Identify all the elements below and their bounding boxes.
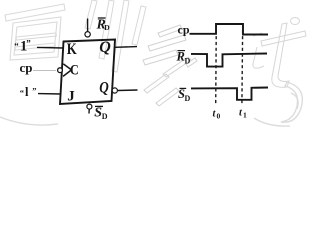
svg-text:Q: Q <box>99 80 109 97</box>
RD label <box>96 18 111 33</box>
svg-text:”: ” <box>32 86 36 96</box>
watermark swooshes <box>0 82 302 126</box>
timing: label SD <box>178 87 191 103</box>
svg-text:cp: cp <box>178 23 190 37</box>
svg-text:J: J <box>67 88 75 104</box>
wire cp (faint) <box>33 69 56 71</box>
svg-text:R: R <box>176 50 185 64</box>
svg-text:1: 1 <box>243 110 247 119</box>
svg-text:D: D <box>185 57 191 66</box>
watermark char kao <box>143 25 197 106</box>
JK flip-flop U1 body <box>60 40 115 105</box>
label t1 <box>239 107 247 119</box>
timing: cp waveform <box>190 24 269 35</box>
svg-text:D: D <box>102 112 108 121</box>
watermark char shi <box>253 18 306 88</box>
wire from "1" to K input <box>37 46 64 49</box>
svg-text:D: D <box>104 23 110 32</box>
SD label <box>94 106 107 121</box>
RD bubble <box>85 32 90 37</box>
SD stub wire <box>88 109 90 113</box>
svg-text:”: ” <box>26 38 31 48</box>
svg-text:Q: Q <box>99 39 111 56</box>
svg-text:D: D <box>185 94 191 103</box>
svg-text:“: “ <box>14 41 19 51</box>
timing: label RD <box>176 50 191 66</box>
dashed line t0 <box>215 25 218 105</box>
svg-text:cp: cp <box>20 60 33 75</box>
clock bubble <box>58 68 63 73</box>
label "l" (J=K=1 lower) <box>20 85 37 99</box>
clock edge wedge <box>63 64 72 77</box>
timing: RD waveform <box>191 54 267 67</box>
dashed line t1 <box>241 25 244 105</box>
svg-text:0: 0 <box>217 111 221 120</box>
svg-text:l: l <box>25 85 29 99</box>
wire Q out <box>115 46 137 49</box>
RD async reset: wire <box>87 19 89 32</box>
svg-text:C: C <box>70 62 79 78</box>
svg-text:K: K <box>67 41 77 58</box>
wire Qbar out <box>118 89 138 92</box>
svg-text:“: “ <box>20 87 24 97</box>
wire from "l" to J input <box>38 93 61 95</box>
watermark char chuan <box>85 0 146 72</box>
timing: SD waveform <box>191 88 268 100</box>
SD async set: bubble <box>87 104 92 109</box>
Qbar bubble <box>112 88 117 93</box>
watermark char bai <box>5 4 65 60</box>
label t0 <box>213 108 221 120</box>
label "1" (J=K=1 upper) <box>14 38 31 54</box>
